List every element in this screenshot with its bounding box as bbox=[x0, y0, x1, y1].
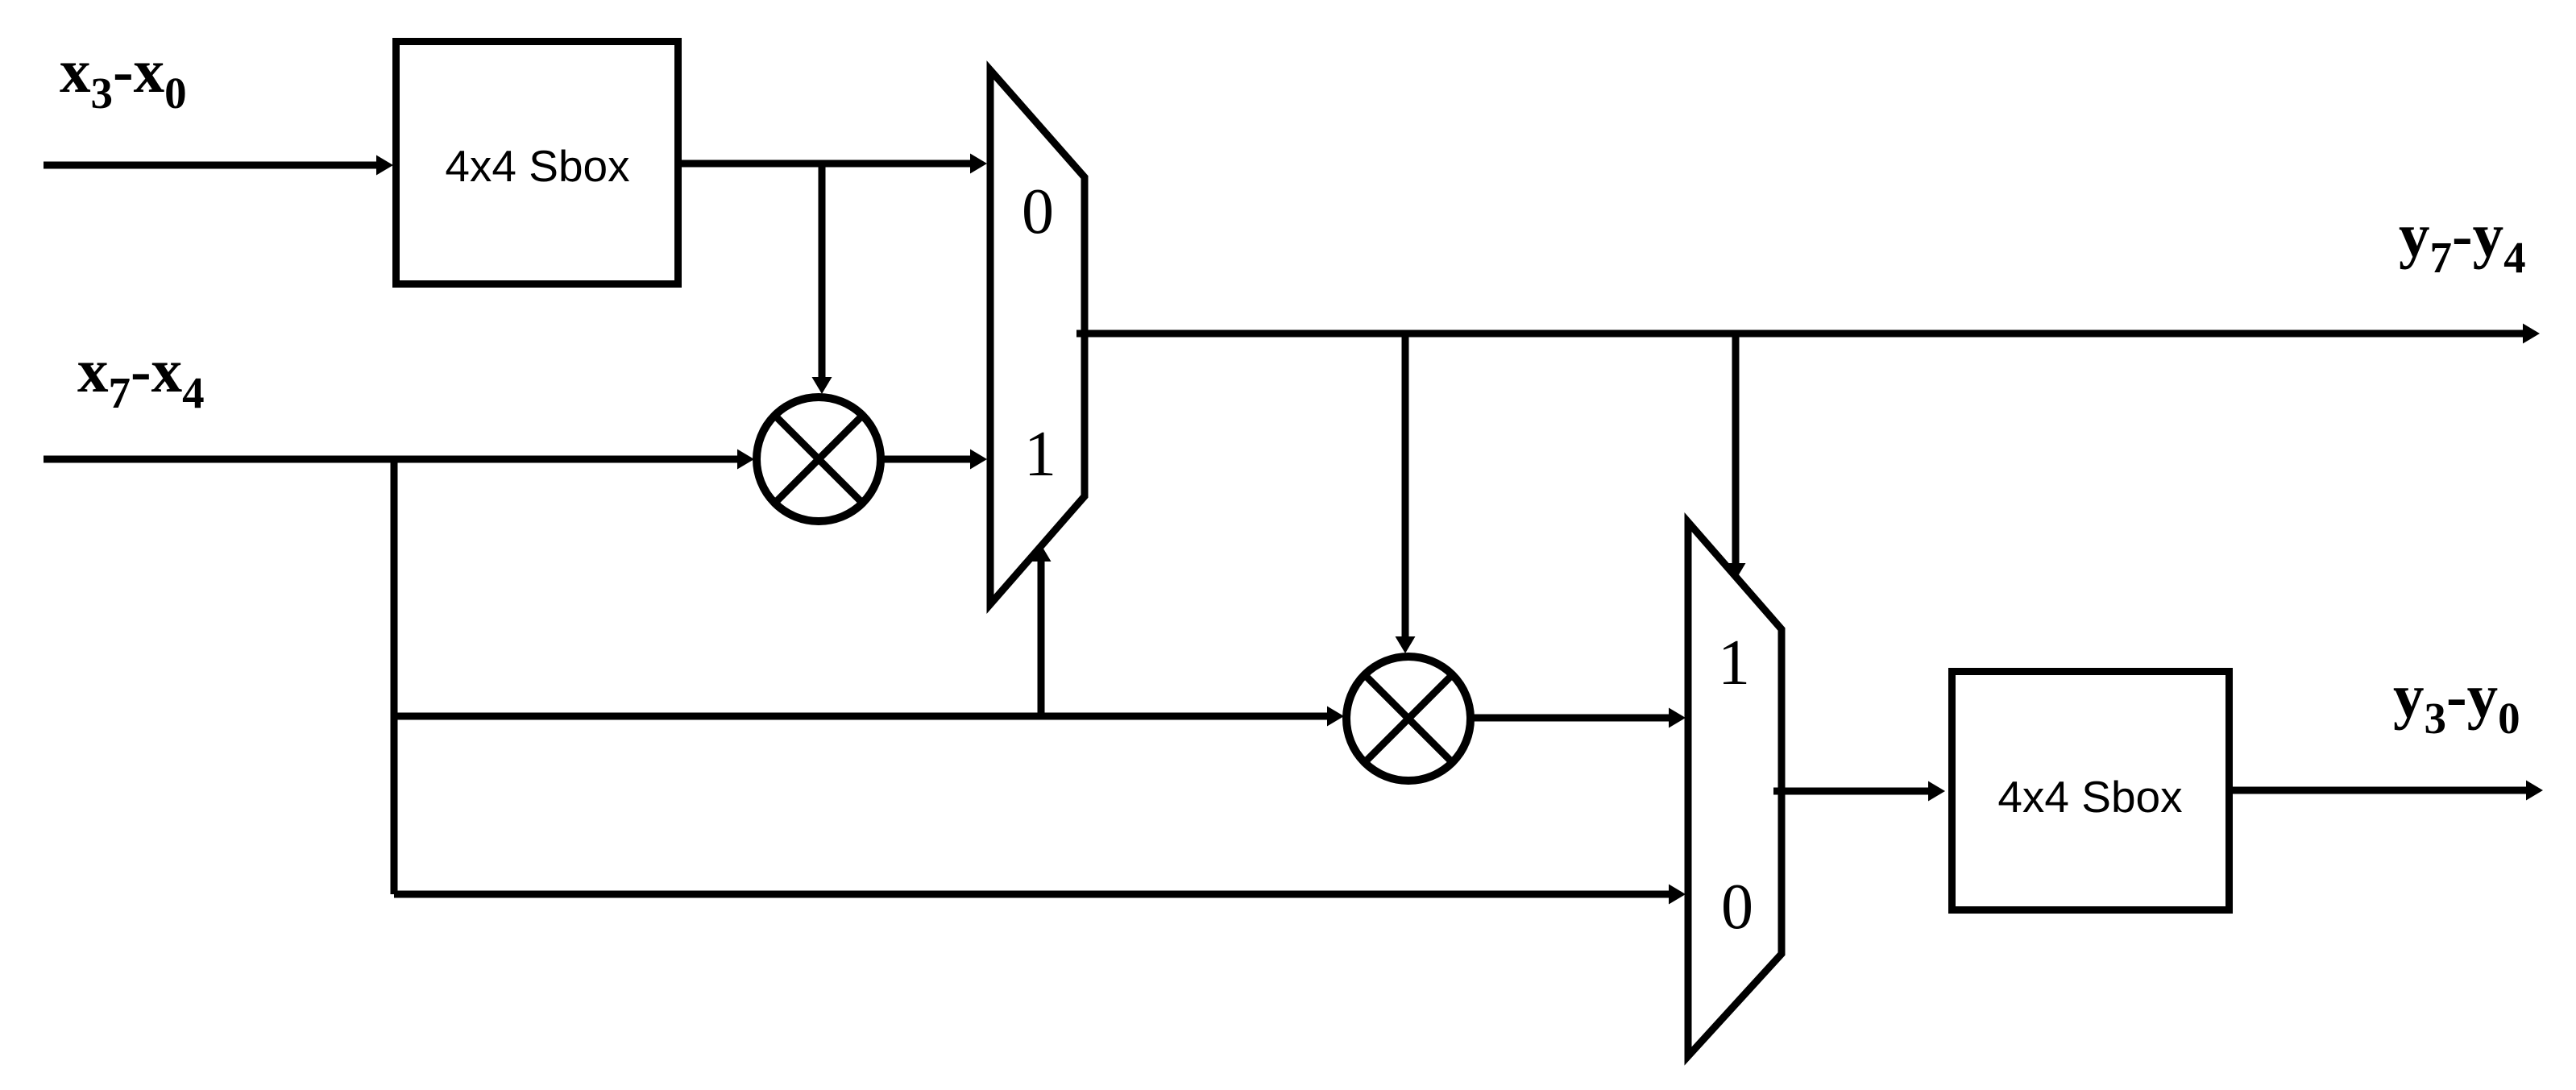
svg-text:1: 1 bbox=[1024, 419, 1056, 490]
svg-text:4x4 Sbox: 4x4 Sbox bbox=[1997, 772, 2182, 822]
svg-text:0: 0 bbox=[1022, 176, 1054, 247]
svg-text:4x4 Sbox: 4x4 Sbox bbox=[445, 141, 629, 191]
svg-text:0: 0 bbox=[1721, 872, 1753, 943]
svg-text:1: 1 bbox=[1718, 628, 1750, 698]
